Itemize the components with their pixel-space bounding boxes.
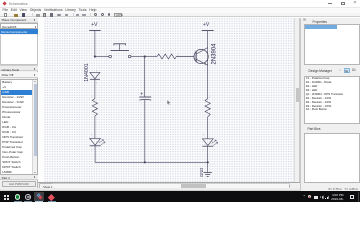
svg-text:2: 2 [96,82,97,84]
svg-text:1: 1 [91,149,92,151]
svg-text:2: 2 [91,134,92,136]
svg-text:1: 1 [107,54,108,56]
svg-text:1: 1 [203,149,204,151]
svg-text:2: 2 [132,54,133,56]
svg-text:1: 1 [92,95,93,97]
svg-text:1: 1 [96,70,97,72]
svg-text:1: 1 [209,95,210,97]
svg-text:2: 2 [203,134,204,136]
svg-text:1: 1 [156,54,157,56]
svg-text:2: 2 [178,54,179,56]
